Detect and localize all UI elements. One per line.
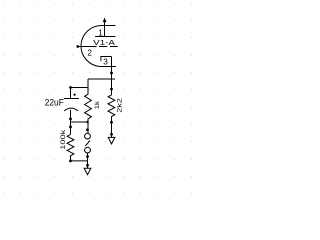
ground arrow right (open)	[108, 137, 115, 144]
node ground right pin dot	[110, 133, 113, 136]
tube V1-A envelope top edge	[103, 25, 116, 27]
svg-text:2k2: 2k2	[117, 97, 124, 112]
svg-text:22uF: 22uF	[45, 98, 64, 108]
tube V1-A envelope bottom edge	[100, 66, 116, 68]
tube V1-A plate (pin 1)	[95, 36, 115, 38]
wire cathode to resistor network	[88, 78, 115, 80]
capacitor C 22uF polarity plus	[73, 94, 75, 96]
capacitor C 22uF top lead	[70, 88, 72, 99]
wire plate lead up	[104, 21, 106, 36]
node 2k2 bottom pin dot	[110, 121, 113, 124]
capacitor C 22uF plates	[64, 99, 79, 111]
node capacitor bottom pin dot	[69, 118, 72, 121]
node resistor 2k2 top pin dot	[110, 88, 113, 91]
switch jack lever	[85, 141, 90, 146]
svg-text:V1-A: V1-A	[93, 38, 115, 47]
junction capacitor top dot	[69, 86, 72, 89]
resistor R 1k	[85, 79, 92, 133]
node jack top pin dot	[86, 128, 89, 131]
switch jack contact bottom circle	[85, 147, 91, 153]
tube V1-A cathode (pin 3)	[101, 57, 112, 62]
svg-text:2: 2	[87, 49, 92, 58]
ground arrow left (open)	[84, 168, 91, 175]
tube V1-A envelope arc	[81, 25, 103, 66]
wire grid stub	[78, 46, 97, 48]
resistor R 100k	[67, 134, 74, 161]
wire cap bottom to jack	[71, 121, 88, 123]
node ground left pin dot	[86, 164, 89, 167]
wire to capacitor top	[71, 87, 89, 89]
tube V1-A grid (dashed, pin 2)	[99, 46, 118, 48]
junction cathode node dot	[110, 72, 113, 75]
wire cathode lead down	[111, 57, 113, 95]
junction jack lead dot	[86, 121, 89, 124]
svg-text:100k: 100k	[60, 129, 67, 150]
junction 100k bottom dot	[69, 160, 72, 163]
resistor R 2k2	[108, 95, 115, 137]
node grid input dot	[76, 45, 79, 48]
wire down jog	[87, 79, 89, 88]
node jack bottom pin dot	[86, 155, 89, 158]
capacitor C 22uF bottom lead	[70, 110, 72, 134]
svg-text:1: 1	[98, 28, 103, 37]
wire bottom return	[71, 160, 88, 162]
node resistor 100k top pin dot	[69, 126, 72, 129]
svg-text:1k: 1k	[94, 100, 101, 109]
switch jack contact top circle	[85, 133, 91, 139]
svg-text:3: 3	[103, 58, 108, 67]
wire jack bottom lead	[87, 153, 89, 168]
power arrow to B+	[103, 19, 106, 22]
